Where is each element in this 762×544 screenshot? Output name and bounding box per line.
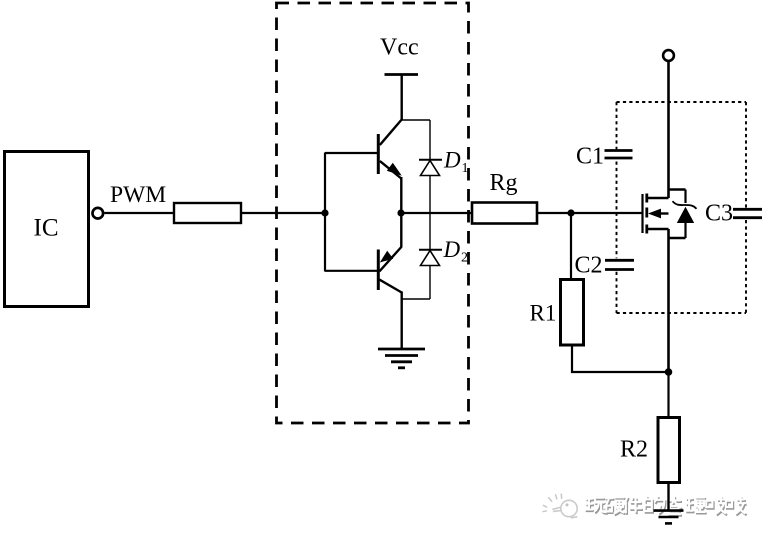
- wire: Q2 base: [325, 270, 379, 272]
- capacitor C2: [575, 253, 635, 279]
- wire resistor to driver input node: [241, 212, 326, 214]
- svg-text:D: D: [443, 237, 461, 262]
- dotted MOSFET model box: [617, 102, 747, 313]
- drain terminal circle: [663, 50, 674, 61]
- svg-text:Vcc: Vcc: [380, 35, 419, 61]
- svg-text:1: 1: [462, 161, 469, 176]
- node B: emitter output junction dot: [397, 209, 404, 216]
- wire: Q1 base: [325, 152, 379, 154]
- MOSFET Q3 drain stub: [647, 197, 669, 199]
- capacitor C3: [705, 201, 762, 227]
- output terminal circle of IC: [93, 208, 104, 219]
- wire: terminal down to MOSFET drain: [667, 61, 670, 198]
- wire: output node to Q2 emitter: [400, 213, 402, 248]
- diode D2: [419, 237, 468, 266]
- svg-text:C1: C1: [576, 144, 604, 170]
- svg-text:C2: C2: [575, 253, 603, 279]
- resistor R2: [658, 418, 680, 483]
- node A: input junction dot: [321, 209, 328, 216]
- node D: source junction dot: [665, 368, 673, 376]
- node C: gate branch junction dot: [567, 209, 574, 216]
- dashed driver stage box: [277, 3, 469, 423]
- transistor Q1 (NPN, upper): [378, 120, 402, 179]
- wire: Q2 collector to ground: [401, 292, 403, 350]
- body diode of MOSFET: [669, 190, 697, 239]
- MOSFET Q3 gate bar: [641, 194, 643, 233]
- svg-text:R1: R1: [530, 301, 557, 326]
- wire: junction down to R1: [570, 213, 572, 280]
- svg-text:R2: R2: [620, 437, 648, 463]
- transistor Q2 (PNP, lower): [378, 247, 401, 293]
- wire: between D1 and D2: [429, 176, 431, 250]
- MOSFET Q3 channel segments: [645, 194, 648, 234]
- resistor R1: [561, 280, 584, 346]
- watermark text 玩硬件的查理吱吱 (embossed gray): [585, 496, 747, 516]
- diode D1: [419, 148, 469, 177]
- svg-text:IC: IC: [34, 215, 59, 242]
- IC box U1: [5, 152, 89, 307]
- ground (driver stage): [378, 349, 425, 368]
- wire: D2 to bottom stub: [429, 266, 431, 300]
- wire: Rg to gate: [537, 212, 642, 214]
- wire: R2 to ground: [667, 483, 669, 511]
- wire: Q1 emitter to output node: [400, 177, 402, 213]
- MOSFET Q3 source stub: [647, 228, 669, 230]
- svg-text:C3: C3: [705, 201, 733, 227]
- svg-text:Rg: Rg: [490, 170, 518, 196]
- input resistor (series gate resistor): [174, 203, 241, 223]
- svg-text:D: D: [443, 148, 461, 173]
- MOSFET Q3 body stub with arrow: [655, 212, 669, 214]
- wire: junction to R2: [667, 372, 669, 418]
- wire: MOSFET source down: [667, 229, 670, 372]
- wire: R1 bottom to source junction: [572, 345, 669, 372]
- wire: diode branch top stub: [402, 119, 430, 121]
- watermark mascot icon: [543, 494, 577, 518]
- wire: common base vertical line: [324, 153, 326, 272]
- wire: output node to Rg: [401, 212, 472, 214]
- wire: diode branch vertical: [429, 120, 431, 160]
- resistor Rg: [472, 203, 537, 224]
- Vcc supply bar: [385, 73, 419, 76]
- wire IC to input resistor: [104, 212, 174, 214]
- capacitor C1: [576, 144, 633, 170]
- svg-text:PWM: PWM: [110, 182, 166, 208]
- wire: Q1 collector to Vcc: [401, 75, 403, 121]
- ground (output, small): [654, 511, 684, 524]
- svg-text:2: 2: [461, 251, 468, 266]
- wire: diode branch bottom stub: [402, 298, 430, 300]
